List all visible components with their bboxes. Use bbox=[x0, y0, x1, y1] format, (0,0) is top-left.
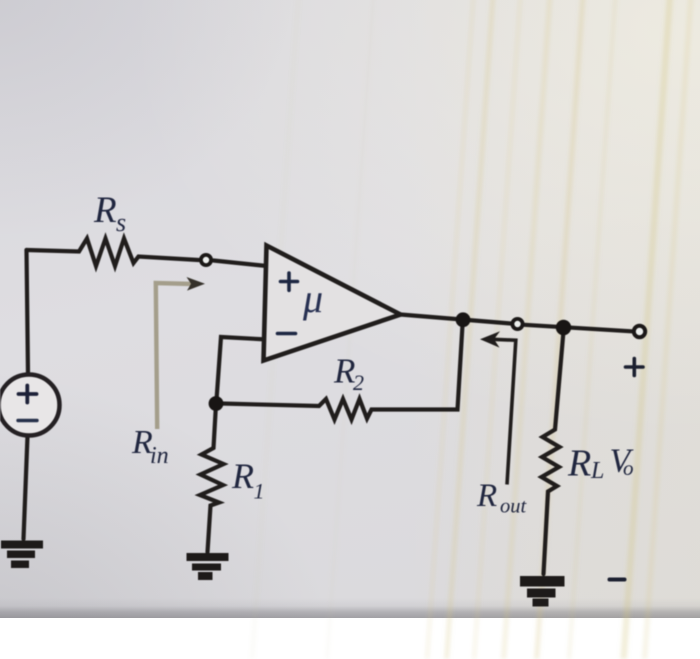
svg-text:s: s bbox=[116, 208, 126, 237]
svg-text:in: in bbox=[150, 443, 169, 469]
svg-text:R: R bbox=[476, 478, 497, 514]
svg-text:R: R bbox=[93, 190, 117, 231]
svg-text:R: R bbox=[231, 456, 254, 496]
svg-text:o: o bbox=[623, 456, 634, 480]
svg-text:μ: μ bbox=[302, 276, 323, 321]
svg-text:L: L bbox=[590, 458, 604, 484]
svg-text:1: 1 bbox=[254, 479, 265, 504]
svg-text:R: R bbox=[567, 443, 591, 485]
svg-text:2: 2 bbox=[353, 370, 364, 395]
svg-text:out: out bbox=[500, 496, 528, 518]
